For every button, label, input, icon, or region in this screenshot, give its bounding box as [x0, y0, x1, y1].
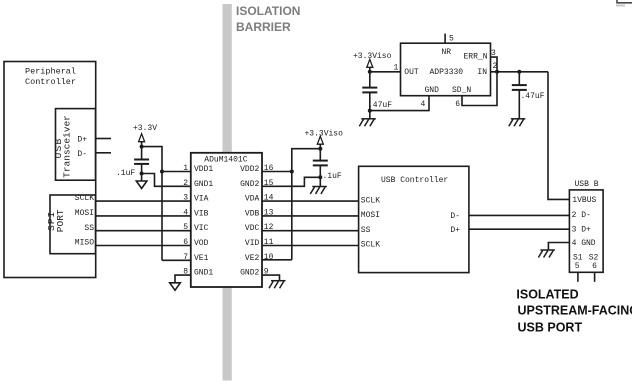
svg-text:VDA: VDA	[245, 195, 260, 204]
regulator U2 ADP3330 box	[401, 43, 491, 95]
svg-text:4 GND: 4 GND	[572, 239, 596, 248]
svg-text:VDD2: VDD2	[240, 165, 259, 174]
svg-text:6: 6	[455, 100, 460, 109]
isolation barrier bar (bottom segment)	[223, 288, 232, 381]
wire USB B GND pin4	[548, 243, 569, 251]
svg-text:VDC: VDC	[245, 224, 260, 233]
node cap C2 gnd junction	[318, 175, 322, 179]
capacitor C4 .47uF	[512, 84, 527, 86]
U2 pin 6 SD_N stub	[462, 72, 497, 106]
wire IN to cap C4	[518, 72, 520, 85]
wire D+ to USB B pin3	[469, 228, 570, 230]
svg-text:+3.3Viso: +3.3Viso	[305, 129, 344, 138]
svg-text:ADP3330: ADP3330	[430, 68, 464, 77]
svg-text:Controller: Controller	[25, 77, 76, 87]
svg-text:6: 6	[183, 238, 188, 247]
svg-text:BARRIER: BARRIER	[236, 20, 291, 34]
svg-text:2 D-: 2 D-	[572, 211, 591, 220]
node cap C1 gnd junction	[140, 172, 144, 176]
svg-text:.1uF: .1uF	[323, 172, 342, 181]
wire VDD2 pin16	[262, 171, 292, 173]
isolator U1 ADuM1401C box	[191, 153, 262, 287]
wire VE1 pin7	[162, 259, 191, 261]
wire MOSI to VIB	[96, 215, 191, 217]
svg-text:.47uF: .47uF	[521, 92, 545, 101]
svg-text:+3.3V: +3.3V	[133, 124, 157, 133]
svg-text:ERR_N: ERR_N	[464, 53, 488, 62]
svg-text:3: 3	[491, 49, 496, 58]
svg-text:1: 1	[394, 63, 399, 72]
svg-text:5: 5	[183, 223, 188, 232]
svg-text:D+: D+	[77, 135, 87, 144]
capacitor C1 .1uF	[134, 159, 149, 161]
svg-text:+3.3Viso: +3.3Viso	[353, 52, 392, 61]
svg-text:MOSI: MOSI	[75, 209, 94, 218]
svg-text:VE1: VE1	[194, 254, 209, 263]
wire VID to controller SCLK	[262, 245, 359, 247]
wire cap C3 bottom	[369, 92, 371, 118]
ground triangle at C1	[136, 181, 147, 189]
svg-text:SS: SS	[361, 226, 371, 235]
svg-text:4: 4	[421, 100, 426, 109]
svg-text:GND1: GND1	[194, 269, 213, 278]
svg-text:.1uF: .1uF	[116, 169, 135, 178]
svg-text:2: 2	[183, 179, 188, 188]
svg-text:D-: D-	[450, 212, 460, 221]
wire +3.3Viso stem	[369, 67, 371, 72]
node pin16 junction	[290, 170, 294, 174]
chassis ground at C2	[310, 187, 327, 195]
wire supply to cap C2	[319, 149, 321, 161]
U2 pin 5 stub	[444, 34, 446, 44]
usb controller box	[359, 166, 469, 272]
svg-text:ISOLATION: ISOLATION	[236, 4, 300, 18]
svg-text:ADuM1401C: ADuM1401C	[204, 156, 247, 165]
capacitor C2 .1uF	[313, 160, 328, 162]
U2 pin 4 GND stub	[370, 96, 429, 111]
usb transceiver box	[56, 109, 96, 181]
svg-text:ISOLATED: ISOLATED	[516, 287, 578, 301]
svg-text:USB B: USB B	[575, 180, 599, 189]
svg-text:VDB: VDB	[245, 209, 260, 218]
svg-text:VIA: VIA	[194, 195, 209, 204]
svg-text:USB Controller: USB Controller	[381, 176, 448, 185]
wire cap junction to pin2 GND1	[142, 174, 191, 187]
node cap C4 junction	[517, 70, 521, 74]
svg-text:D+: D+	[450, 226, 460, 235]
svg-text:D-: D-	[77, 150, 87, 159]
svg-text:SCLK: SCLK	[361, 196, 380, 205]
svg-text:VOD: VOD	[194, 239, 209, 248]
wire supply to cap C1	[141, 147, 143, 160]
svg-text:VE2: VE2	[245, 254, 260, 263]
node ERR/SD tie junction	[495, 70, 499, 74]
wire VE2 tie to VDD2 (vertical crossing)	[291, 172, 293, 260]
svg-text:8: 8	[183, 268, 188, 277]
svg-text:NR: NR	[442, 48, 452, 57]
wire SCLK to VIA	[96, 200, 191, 202]
svg-text:MOSI: MOSI	[361, 211, 380, 220]
svg-text:.47uF: .47uF	[368, 101, 392, 110]
node pin4 gnd junction	[368, 109, 372, 113]
svg-text:IN: IN	[477, 68, 487, 77]
svg-text:UPSTREAM-FACING: UPSTREAM-FACING	[518, 304, 632, 318]
wire shield stub S2	[594, 272, 596, 282]
svg-text:MISO: MISO	[75, 239, 94, 248]
svg-text:SCLK: SCLK	[361, 241, 380, 250]
wire VDC to controller SS	[262, 230, 359, 232]
wire shield stub S1	[577, 272, 579, 282]
wire cap C1 bottom	[141, 164, 143, 181]
svg-text:VID: VID	[245, 239, 260, 248]
svg-text:OUT: OUT	[404, 68, 419, 77]
svg-text:7: 7	[183, 253, 188, 262]
svg-text:1: 1	[183, 164, 188, 173]
svg-text:GND2: GND2	[240, 269, 259, 278]
svg-text:SS: SS	[84, 224, 94, 233]
wire VE2 pin10	[262, 259, 292, 261]
isolation barrier bar (top segment)	[223, 4, 232, 153]
svg-text:2: 2	[493, 62, 498, 71]
wire VDD1 pin1	[162, 171, 191, 173]
wire VBUS drop to USB B pin1	[548, 72, 569, 200]
peripheral controller U3 box	[4, 62, 96, 278]
chassis ground at C4	[509, 119, 526, 127]
svg-text:5: 5	[575, 262, 580, 271]
figure corner mark top-right	[617, 0, 632, 3]
wire IN rail	[491, 71, 549, 73]
svg-text:USB PORT: USB PORT	[518, 321, 583, 335]
svg-text:1VBUS: 1VBUS	[572, 196, 596, 205]
svg-text:Peripheral: Peripheral	[25, 67, 76, 77]
svg-text:SD_N: SD_N	[452, 86, 471, 95]
chassis ground at pin9	[269, 281, 286, 289]
svg-text:VDD1: VDD1	[194, 165, 213, 174]
wire supply branch to pin1	[142, 147, 162, 172]
wire VE1 tie to VDD1 (vertical crossing)	[161, 172, 163, 261]
wire cap junction to pin15 GND2	[262, 177, 320, 186]
svg-text:SCLK: SCLK	[75, 194, 94, 203]
spi port box	[50, 195, 96, 254]
wire OUT to cap C3	[369, 72, 371, 88]
svg-text:GND1: GND1	[194, 180, 213, 189]
svg-text:Transceiver: Transceiver	[62, 115, 73, 178]
svg-text:PORT: PORT	[55, 209, 66, 232]
wire D- stub	[96, 152, 112, 154]
wire MISO to VOD	[96, 245, 191, 247]
svg-text:3: 3	[183, 194, 188, 203]
svg-text:VIB: VIB	[194, 209, 209, 218]
svg-text:4: 4	[183, 208, 188, 217]
svg-text:GND2: GND2	[240, 180, 259, 189]
wire OUT pin1	[370, 71, 401, 73]
svg-text:VIC: VIC	[194, 224, 209, 233]
wire D+ stub	[96, 138, 112, 140]
wire GND2 pin9	[262, 275, 280, 281]
node VDD1 supply junction	[140, 145, 144, 149]
ground triangle at pin8	[170, 283, 181, 291]
wire SS to VIC	[96, 230, 191, 232]
wire D- to USB B pin2	[469, 214, 570, 216]
chassis ground at C3	[359, 119, 376, 127]
node VDD2 supply junction	[318, 147, 322, 151]
wire cap C4 bottom	[518, 90, 520, 119]
wire VDA to controller SCLK	[262, 200, 359, 202]
wire supply branch to pin16	[292, 149, 321, 172]
svg-text:6: 6	[592, 262, 597, 271]
capacitor C3 .47uF	[362, 87, 377, 89]
chassis ground at USB B	[538, 250, 555, 258]
wire +3.3Viso stem	[319, 144, 321, 149]
U2 pin 3 ERR_N stub	[491, 57, 498, 72]
svg-text:5: 5	[449, 34, 454, 43]
wire VDB to controller MOSI	[262, 215, 359, 217]
wire GND1 pin8	[175, 275, 191, 283]
wire +3.3V stem	[141, 142, 143, 147]
svg-text:GND: GND	[425, 86, 440, 95]
node pin1 junction	[160, 170, 164, 174]
svg-text:3 D+: 3 D+	[572, 225, 591, 234]
node OUT junction	[368, 70, 372, 74]
wire cap C2 bottom	[319, 165, 321, 186]
